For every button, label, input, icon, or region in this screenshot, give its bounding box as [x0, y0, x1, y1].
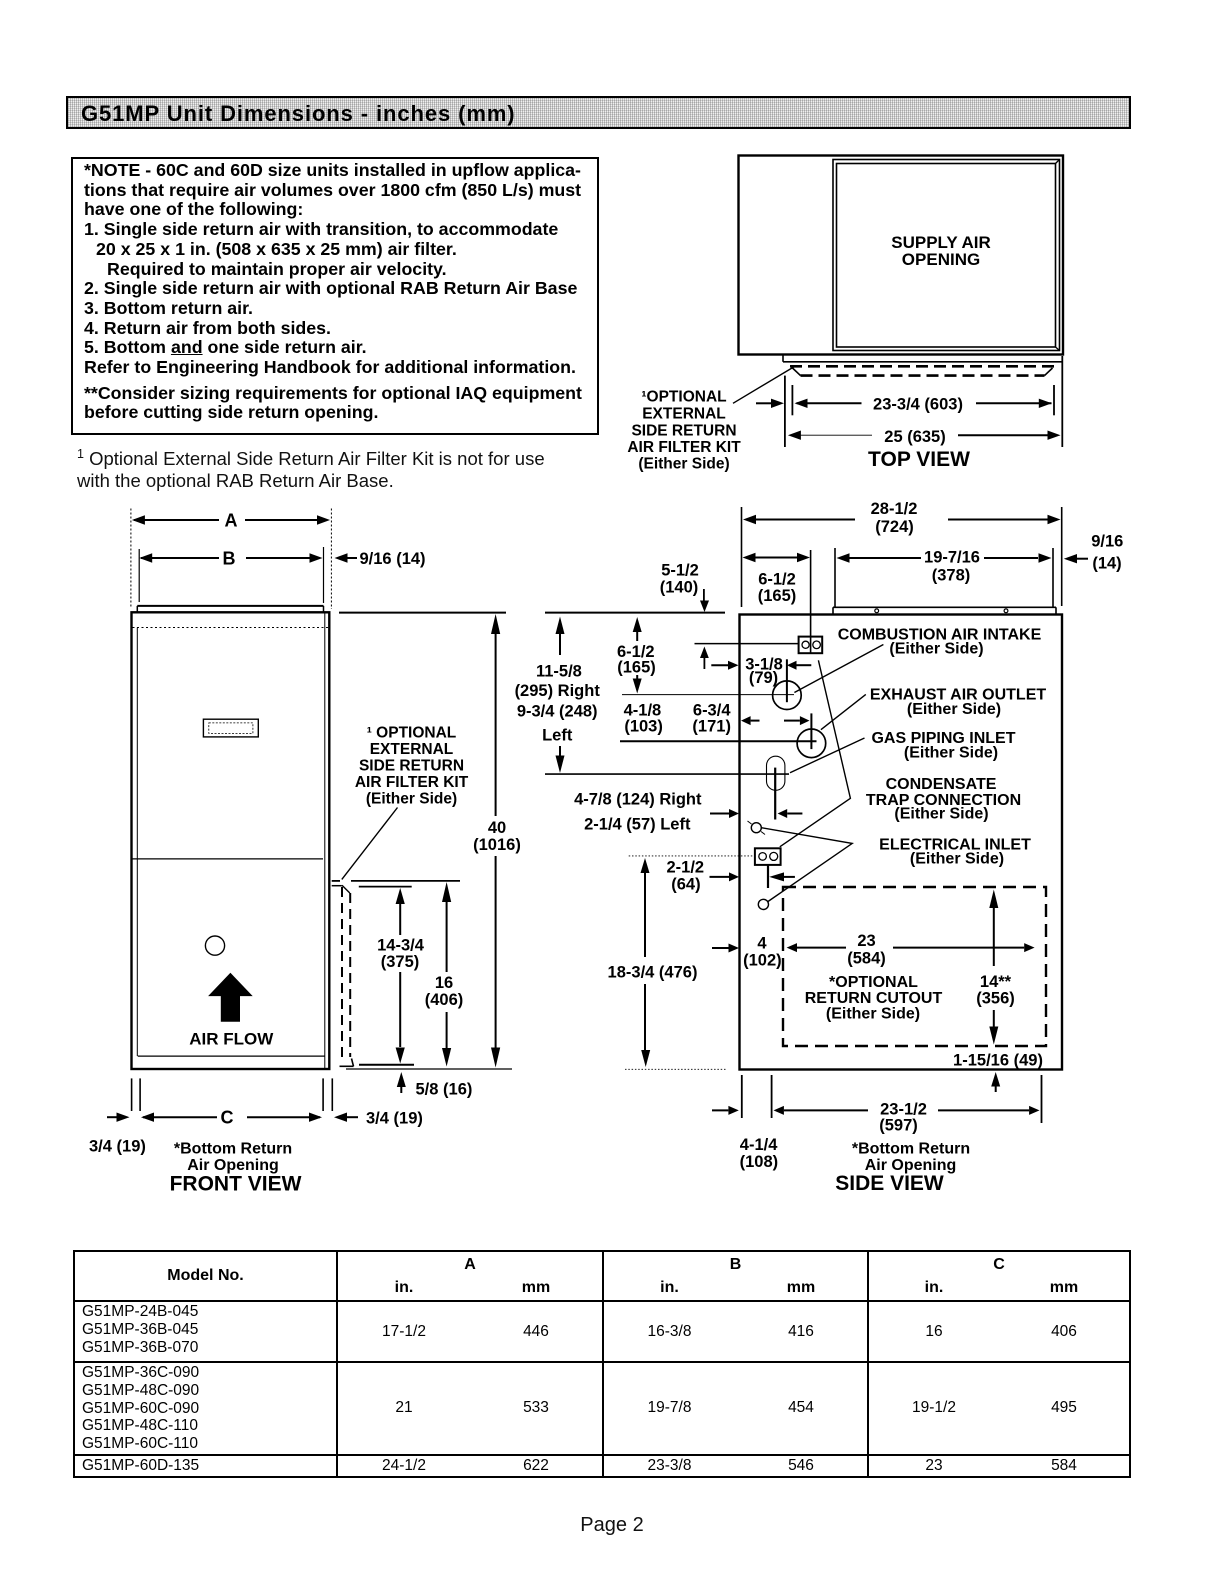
- svg-text:AIR FILTER KIT: AIR FILTER KIT: [627, 439, 741, 456]
- svg-text:(165): (165): [617, 659, 656, 677]
- svg-text:AIR FLOW: AIR FLOW: [189, 1030, 274, 1049]
- shared top reference line to side view: [339, 612, 725, 614]
- svg-text:(140): (140): [660, 579, 699, 597]
- side view: exhaust air outlet circle: [773, 659, 802, 709]
- side view: EXHAUST AIR OUTLET label: [870, 687, 1047, 719]
- page number: [0, 1514, 1224, 1537]
- svg-text:2-1/2: 2-1/2: [666, 859, 704, 877]
- side view: combustion air intake knockout box: [799, 637, 823, 654]
- front view: panel divider line: [133, 858, 324, 860]
- front view: optional external side return air filter kit label: [355, 725, 469, 808]
- top view: bottom strip panel: [783, 355, 1063, 362]
- side view: top cap panel: [833, 607, 1056, 614]
- side view: dimension 2-1/2 (64): [666, 859, 794, 894]
- svg-text:EXTERNAL: EXTERNAL: [642, 406, 726, 423]
- svg-text:40: 40: [488, 819, 506, 837]
- svg-text:C: C: [221, 1108, 234, 1128]
- side view: dimension 6-1/2 (165) vertical: [617, 617, 656, 694]
- svg-text:9-3/4 (248): 9-3/4 (248): [517, 703, 598, 721]
- side view: dimension 4-7/8 (124) Right / 2-1/4 (57) Left: [574, 791, 802, 834]
- svg-text:(14): (14): [1092, 555, 1121, 573]
- svg-text:(378): (378): [932, 567, 971, 585]
- front view: dimension 16 (406): [425, 882, 464, 1067]
- svg-text:16: 16: [435, 974, 453, 992]
- svg-text:*Bottom Return: *Bottom Return: [174, 1141, 292, 1158]
- svg-text:SIDE VIEW: SIDE VIEW: [835, 1172, 944, 1195]
- svg-text:¹ OPTIONAL: ¹ OPTIONAL: [367, 725, 457, 742]
- svg-text:(102): (102): [743, 952, 782, 970]
- front view: dimension B guide lines: [139, 547, 323, 603]
- top view: small pointer arrow at left of dimension: [756, 399, 784, 408]
- front view: left outside arrow 3/4 (19): [89, 1113, 146, 1156]
- side view: gas piping inlet circle: [620, 713, 826, 757]
- side view: combustion intake drop line: [810, 550, 812, 653]
- front view: inner panel lines: [133, 612, 329, 1069]
- svg-text:Air Opening: Air Opening: [187, 1157, 279, 1174]
- svg-text:(64): (64): [671, 876, 700, 894]
- side view: leader gas piping inlet label: [790, 738, 865, 773]
- top view: dimension guide ticks: [785, 356, 1062, 447]
- front view: bottom dimension ticks: [132, 1078, 333, 1111]
- top view: filter kit dashed line lower: [793, 368, 1053, 376]
- side view: dimension 6-3/4 (171): [624, 702, 810, 736]
- front view: leader line from label to filter kit: [342, 808, 398, 880]
- top view: SUPPLY AIR OPENING label: [891, 233, 991, 269]
- front view: dimension 40 (1016): [473, 614, 521, 1068]
- front view: FRONT VIEW title: [170, 1173, 302, 1196]
- top view: dimension 23-3/4 (603): [795, 396, 1052, 414]
- svg-text:RETURN CUTOUT: RETURN CUTOUT: [805, 990, 943, 1007]
- svg-text:6-1/2: 6-1/2: [758, 571, 796, 589]
- top view: supply air opening outer panel: [833, 160, 1060, 351]
- front view: 5/8 reference line and arrow: [359, 1065, 472, 1099]
- svg-text:(1016): (1016): [473, 836, 521, 854]
- side view: dimension 23 (584): [787, 932, 1035, 968]
- svg-text:(584): (584): [847, 950, 886, 968]
- svg-text:(Either Side): (Either Side): [638, 456, 729, 473]
- front view: dimension A guide lines: [131, 509, 332, 610]
- top view: dimension 25 (635): [788, 428, 1061, 446]
- svg-text:5/8 (16): 5/8 (16): [416, 1081, 473, 1099]
- svg-text:B: B: [223, 549, 236, 569]
- front view: dimension C: [141, 1108, 322, 1128]
- side view: optional return cutout dashed box: [783, 887, 1046, 1046]
- side view: cabinet outline: [740, 615, 1063, 1070]
- svg-text:*Bottom Return: *Bottom Return: [852, 1141, 970, 1158]
- side view: dimension 28-1/2 (724): [743, 500, 1061, 536]
- svg-text:AIR FILTER KIT: AIR FILTER KIT: [355, 774, 469, 791]
- top view: leader line to filter kit: [733, 367, 795, 404]
- top view: cabinet outline: [739, 156, 1064, 355]
- note box: [71, 157, 599, 435]
- front view: AIR FLOW label: [189, 1030, 274, 1049]
- side view: condensate slot oval: [767, 756, 785, 819]
- front view: bottom band line: [138, 1055, 325, 1057]
- top view: optional external side return air filter kit label: [627, 389, 741, 473]
- svg-text:(103): (103): [624, 718, 663, 736]
- front view: dimension 14-3/4 (375): [377, 888, 425, 1064]
- side view: dimension 9/16 (14): [1064, 533, 1124, 573]
- side view: electrical inlet knockout box: [755, 848, 781, 888]
- svg-text:OPENING: OPENING: [902, 250, 980, 269]
- front view: filter kit top reference line: [332, 881, 460, 887]
- side view: dimension 19-7/16 guide lines: [835, 548, 1053, 608]
- side view: left outside arrow 4-1/4: [712, 1106, 739, 1115]
- svg-text:25 (635): 25 (635): [884, 428, 945, 446]
- side view: ELECTRICAL INLET label: [879, 837, 1031, 868]
- svg-text:5-1/2: 5-1/2: [661, 562, 699, 580]
- svg-text:(165): (165): [758, 587, 797, 605]
- svg-text:14**: 14**: [980, 973, 1012, 991]
- svg-text:(597): (597): [879, 1117, 918, 1135]
- side view: dimension 4 (102): [712, 935, 782, 970]
- side view: condensate trap circle: [748, 821, 766, 835]
- svg-text:1-15/16 (49): 1-15/16 (49): [953, 1052, 1043, 1070]
- side view: leader condensate circle to electrical label to lower circle: [761, 828, 852, 902]
- side view: COMBUSTION AIR INTAKE label: [838, 627, 1042, 658]
- svg-text:SIDE RETURN: SIDE RETURN: [631, 423, 736, 440]
- svg-text:(Either Side): (Either Side): [894, 806, 988, 823]
- svg-text:(Either Side): (Either Side): [366, 791, 457, 808]
- front view: cabinet outline: [132, 612, 330, 1069]
- side view: dimension 3-1/8 (79): [711, 656, 811, 688]
- front view: filter kit dashed box: [340, 885, 354, 1066]
- top view: supply air opening inner panel with bevel corners: [837, 160, 1060, 351]
- side view: exhaust outlet reference line: [622, 694, 794, 696]
- svg-text:A: A: [225, 511, 238, 531]
- svg-text:18-3/4 (476): 18-3/4 (476): [608, 964, 698, 982]
- side view: leader from intake box to condensate label to electrical box: [780, 660, 851, 847]
- top view: filter kit dashed line upper: [790, 365, 1056, 368]
- front view: dimension A: [132, 511, 330, 531]
- svg-text:9/16 (14): 9/16 (14): [360, 550, 426, 568]
- svg-text:TOP VIEW: TOP VIEW: [868, 448, 970, 471]
- top view: TOP VIEW title: [868, 448, 970, 471]
- svg-text:(406): (406): [425, 991, 464, 1009]
- front view: rating label plate: [203, 719, 258, 737]
- svg-text:(Either Side): (Either Side): [907, 701, 1001, 718]
- side view: dimension 18-3/4 (476): [608, 858, 726, 1069]
- side view: dimension 11-5/8 (295) / 9-3/4 (248): [515, 617, 601, 774]
- svg-text:(Either Side): (Either Side): [889, 641, 983, 658]
- side view: SIDE VIEW title: [835, 1172, 944, 1195]
- front view: bottom return air opening label: [174, 1141, 292, 1175]
- svg-text:EXTERNAL: EXTERNAL: [370, 741, 454, 758]
- svg-text:23-3/4 (603): 23-3/4 (603): [873, 396, 963, 414]
- svg-text:¹OPTIONAL: ¹OPTIONAL: [641, 389, 726, 406]
- side view: leader exhaust air outlet label: [821, 694, 866, 729]
- side view: dimension 1-15/16 (49): [953, 1052, 1043, 1093]
- side view: dimension 14** (356): [976, 890, 1015, 1045]
- side view: dimension 23-1/2 (597): [774, 1101, 1040, 1135]
- side view: GAS PIPING INLET label: [871, 730, 1015, 762]
- svg-text:CONDENSATE: CONDENSATE: [886, 776, 997, 793]
- side view: dimension 5-1/2 (140): [660, 562, 709, 613]
- title bar: G51MP Unit Dimensions: [66, 96, 1131, 129]
- side view: CONDENSATE TRAP CONNECTION label: [866, 776, 1021, 823]
- svg-text:4: 4: [757, 935, 767, 953]
- svg-text:Left: Left: [542, 727, 573, 745]
- svg-text:4-1/4: 4-1/4: [740, 1136, 778, 1154]
- svg-text:28-1/2: 28-1/2: [871, 500, 918, 518]
- side view: lower reference line: [545, 773, 789, 775]
- svg-text:(Either Side): (Either Side): [904, 745, 998, 762]
- side view: dimension 19-7/16 (378): [837, 549, 1052, 585]
- front view: air flow arrow: [208, 973, 253, 1022]
- svg-text:2-1/4 (57) Left: 2-1/4 (57) Left: [584, 816, 691, 834]
- side view: dimension 28-1/2 guide lines: [742, 507, 1062, 607]
- svg-text:FRONT VIEW: FRONT VIEW: [170, 1173, 302, 1196]
- side view: lower electrical knockout circle: [758, 899, 768, 909]
- svg-text:11-5/8: 11-5/8: [536, 663, 582, 681]
- svg-text:(Either Side): (Either Side): [910, 851, 1004, 868]
- front view: dimension 9/16 (14) top: [335, 550, 426, 568]
- svg-text:(Either Side): (Either Side): [826, 1006, 920, 1023]
- side view: bottom return air opening label: [852, 1141, 970, 1175]
- svg-text:19-7/16: 19-7/16: [924, 549, 980, 567]
- front view: right outside arrow 3/4 (19): [334, 1110, 423, 1128]
- side view: dimension 6-1/2 (165) horizontal: [743, 553, 811, 605]
- svg-text:14-3/4: 14-3/4: [377, 937, 425, 955]
- side view: bottom dimension ticks: [742, 1075, 1042, 1123]
- side view: OPTIONAL RETURN CUTOUT label: [805, 974, 943, 1023]
- svg-text:9/16: 9/16: [1091, 533, 1123, 551]
- svg-text:3/4 (19): 3/4 (19): [366, 1110, 423, 1128]
- svg-text:(375): (375): [381, 953, 420, 971]
- side view: combustion intake reference line and arrow: [695, 644, 799, 669]
- svg-text:(356): (356): [976, 990, 1015, 1008]
- svg-text:23: 23: [857, 932, 875, 950]
- front view: top cap panel: [137, 606, 323, 612]
- svg-text:(724): (724): [875, 518, 914, 536]
- svg-text:(171): (171): [692, 718, 731, 736]
- svg-text:SIDE RETURN: SIDE RETURN: [359, 758, 464, 775]
- svg-text:(295) Right: (295) Right: [515, 682, 601, 700]
- svg-text:*OPTIONAL: *OPTIONAL: [829, 974, 918, 991]
- side view: electrical inlet dotted reference line: [629, 855, 755, 857]
- front view: dimension B: [139, 549, 322, 569]
- side view: 4-1/4 (108) label: [740, 1136, 779, 1171]
- svg-text:(79): (79): [749, 669, 778, 687]
- svg-text:3/4 (19): 3/4 (19): [89, 1138, 146, 1156]
- svg-text:(108): (108): [740, 1153, 779, 1171]
- front view: sight glass circle: [205, 936, 224, 955]
- dimensions table: [73, 1250, 1131, 1478]
- front view: bottom reference line right: [346, 1068, 512, 1070]
- side view: leader combustion air intake label: [794, 645, 883, 693]
- footnote: [77, 444, 617, 491]
- svg-text:4-7/8 (124) Right: 4-7/8 (124) Right: [574, 791, 702, 809]
